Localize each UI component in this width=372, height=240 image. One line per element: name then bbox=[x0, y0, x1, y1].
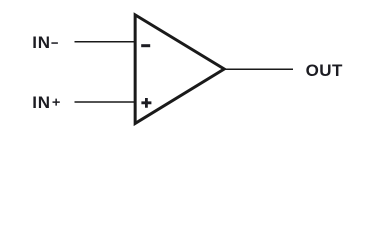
label node IN+ : plus glyph bbox=[53, 99, 60, 106]
wire IN+ input bbox=[75, 101, 136, 103]
inverting input polarity mark (-) on op-amp pin bbox=[141, 44, 150, 47]
svg-text:IN: IN bbox=[32, 93, 50, 112]
svg-text:OUT: OUT bbox=[306, 61, 343, 80]
wire IN- input bbox=[75, 41, 136, 43]
op-amp U1 bbox=[135, 15, 224, 124]
label node IN- : minus glyph bbox=[51, 42, 58, 44]
wire OUT output bbox=[225, 68, 293, 70]
svg-text:IN: IN bbox=[32, 33, 50, 52]
non-inverting input polarity mark (+) on op-amp pin bbox=[141, 98, 151, 108]
